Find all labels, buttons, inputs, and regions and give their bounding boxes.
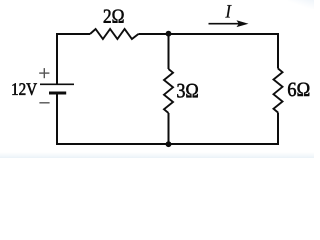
wire top-middle segment [138, 33, 168, 35]
current arrow I [209, 20, 249, 27]
wire middle branch lower [168, 113, 170, 145]
wire top-left segment [57, 34, 90, 84]
wire right branch lower [277, 113, 279, 146]
wire middle branch upper [168, 34, 170, 69]
node B bottom junction dot [166, 141, 172, 147]
voltage source V1 battery short plate (−) [49, 92, 66, 95]
resistor R2 3Ω zigzag [164, 69, 173, 113]
resistor R3 6Ω zigzag [274, 69, 283, 113]
wire bottom segment [56, 143, 279, 145]
battery minus sign [39, 102, 49, 104]
label 12V value [12, 83, 37, 95]
wire right branch upper [277, 33, 279, 69]
wire left lower segment [56, 93, 58, 145]
label 2Ω value [104, 10, 124, 23]
label 6Ω value [288, 83, 309, 97]
voltage source V1 battery long plate (+) [40, 83, 74, 85]
wire top-right segment [169, 33, 280, 35]
resistor R1 2Ω zigzag [90, 29, 138, 39]
battery plus sign [39, 68, 49, 78]
node A top junction dot [166, 31, 172, 37]
label 3Ω value [177, 84, 198, 98]
label I current [225, 5, 231, 17]
